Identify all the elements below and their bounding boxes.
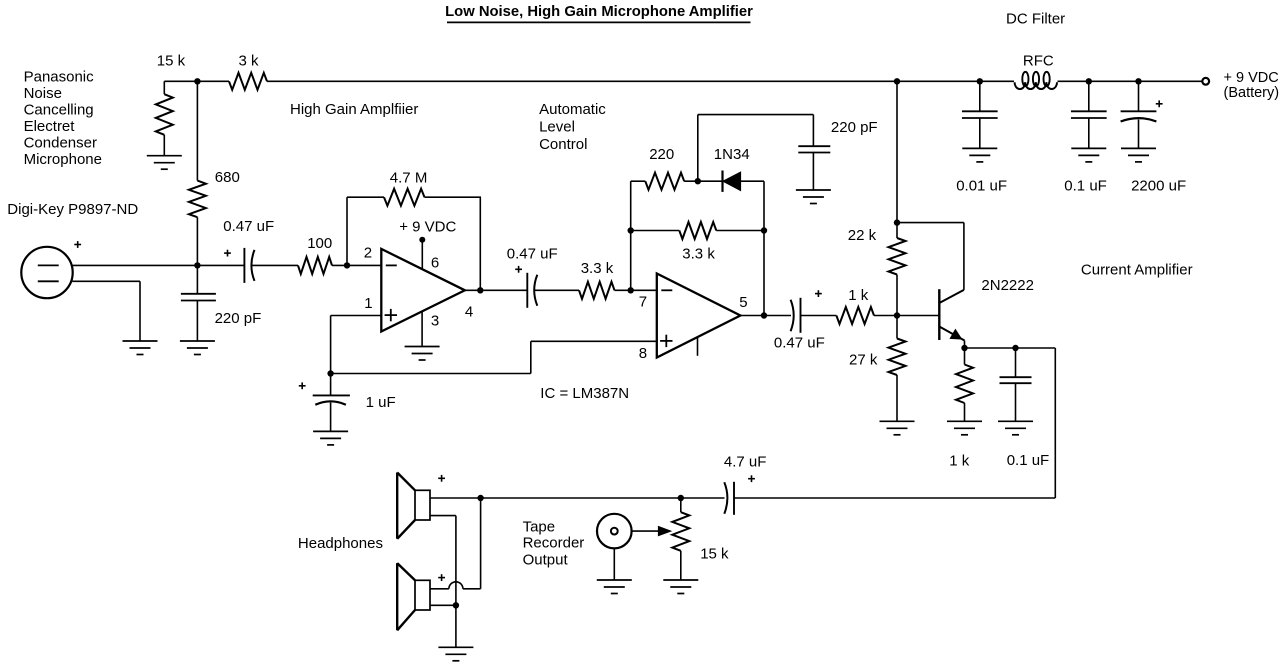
svg-text:27 k: 27 k xyxy=(849,351,878,368)
svg-text:2N2222: 2N2222 xyxy=(981,277,1034,294)
svg-text:DC Filter: DC Filter xyxy=(1006,10,1065,27)
svg-text:Automatic: Automatic xyxy=(539,101,606,118)
svg-text:Level: Level xyxy=(539,119,575,136)
svg-text:4.7 uF: 4.7 uF xyxy=(724,453,767,470)
svg-text:4: 4 xyxy=(465,304,473,321)
svg-text:+ 9 VDC: + 9 VDC xyxy=(1224,70,1279,86)
svg-text:0.47 uF: 0.47 uF xyxy=(223,218,274,235)
svg-text:0.1 uF: 0.1 uF xyxy=(1007,452,1050,469)
svg-text:3.3 k: 3.3 k xyxy=(682,245,715,262)
svg-text:3: 3 xyxy=(431,313,439,330)
svg-text:Headphones: Headphones xyxy=(298,535,383,552)
svg-text:Digi-Key P9897-ND: Digi-Key P9897-ND xyxy=(7,201,138,218)
svg-text:220 pF: 220 pF xyxy=(831,119,878,136)
svg-text:220 pF: 220 pF xyxy=(215,310,262,327)
svg-text:0.1 uF: 0.1 uF xyxy=(1064,178,1107,195)
svg-text:1: 1 xyxy=(364,295,372,312)
svg-text:High Gain Amplfiier: High Gain Amplfiier xyxy=(290,101,418,118)
svg-text:+ 9 VDC: + 9 VDC xyxy=(399,219,456,236)
svg-text:Control: Control xyxy=(539,136,587,153)
svg-text:(Battery): (Battery) xyxy=(1224,85,1280,101)
svg-text:22 k: 22 k xyxy=(848,227,877,244)
svg-text:1 k: 1 k xyxy=(848,287,869,304)
svg-text:6: 6 xyxy=(431,255,439,272)
svg-text:1 k: 1 k xyxy=(949,452,970,469)
svg-text:Microphone: Microphone xyxy=(24,151,102,168)
svg-text:2200 uF: 2200 uF xyxy=(1131,178,1186,195)
svg-text:0.47 uF: 0.47 uF xyxy=(507,246,558,263)
svg-text:100: 100 xyxy=(307,235,332,252)
svg-text:1 uF: 1 uF xyxy=(366,394,396,411)
svg-text:5: 5 xyxy=(739,294,747,311)
svg-text:Electret: Electret xyxy=(24,118,76,135)
svg-text:680: 680 xyxy=(215,169,240,186)
svg-text:Current Amplifier: Current Amplifier xyxy=(1081,261,1193,278)
svg-text:RFC: RFC xyxy=(1023,53,1054,70)
svg-text:15 k: 15 k xyxy=(157,52,186,69)
svg-text:15 k: 15 k xyxy=(700,546,729,563)
svg-text:IC = LM387N: IC = LM387N xyxy=(540,385,629,402)
svg-text:Output: Output xyxy=(523,552,569,569)
svg-text:Recorder: Recorder xyxy=(523,534,585,551)
svg-text:3.3 k: 3.3 k xyxy=(581,260,614,277)
svg-text:4.7 M: 4.7 M xyxy=(390,169,428,186)
svg-text:Tape: Tape xyxy=(523,518,556,535)
svg-text:Condenser: Condenser xyxy=(24,135,97,152)
svg-text:0.01 uF: 0.01 uF xyxy=(956,178,1007,195)
svg-text:Cancelling: Cancelling xyxy=(24,102,94,119)
svg-text:Noise: Noise xyxy=(24,85,62,102)
svg-text:Panasonic: Panasonic xyxy=(24,69,95,86)
svg-text:7: 7 xyxy=(639,293,647,310)
svg-text:8: 8 xyxy=(639,345,647,362)
svg-text:0.47 uF: 0.47 uF xyxy=(774,335,825,352)
svg-text:220: 220 xyxy=(649,146,674,163)
svg-text:Low Noise, High Gain Microphon: Low Noise, High Gain Microphone Amplifie… xyxy=(445,4,753,20)
svg-text:2: 2 xyxy=(364,244,372,261)
svg-text:1N34: 1N34 xyxy=(714,146,750,163)
svg-text:3 k: 3 k xyxy=(239,52,260,69)
